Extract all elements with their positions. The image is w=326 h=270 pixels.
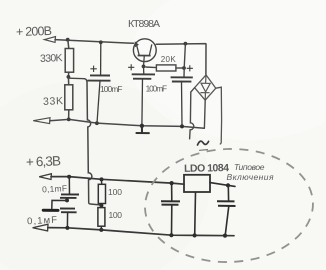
svg-text:33K: 33K xyxy=(43,95,63,108)
node top of 330K xyxy=(66,38,70,42)
transistor Q1 xyxy=(133,39,156,67)
bridge diode symbol xyxy=(200,75,210,100)
terminal arrow +200V xyxy=(45,37,56,43)
node 20K right xyxy=(182,66,186,70)
svg-text:+ 200В: + 200В xyxy=(16,24,52,39)
svg-text:100mF: 100mF xyxy=(100,84,123,94)
capacitor LDO left xyxy=(161,183,180,235)
wire rail to 20K node xyxy=(184,44,185,78)
node top of C1 xyxy=(99,40,103,44)
svg-text:100: 100 xyxy=(108,187,122,197)
node rail3 LDO left cap xyxy=(170,181,174,185)
terminal arrow rail3 xyxy=(39,174,51,180)
ground symbol xyxy=(136,126,149,133)
node top of 20K line xyxy=(184,42,188,46)
wire LDO output right xyxy=(210,183,235,187)
transistor emitter arrowhead xyxy=(135,41,139,47)
wire bridge right AC down xyxy=(216,87,222,144)
svg-text:Типовое: Типовое xyxy=(234,162,265,172)
capacitor LDO right xyxy=(217,185,236,235)
node rail4 R2 xyxy=(99,228,103,232)
capacitor CA 0.1mF xyxy=(60,177,79,201)
wire rail4 bottom xyxy=(48,228,234,236)
svg-text:КТ898А: КТ898А xyxy=(128,18,160,30)
node rail4 LDO pin xyxy=(193,233,197,237)
node C2 bottom xyxy=(140,124,144,128)
capacitor C1 100mF xyxy=(88,42,111,123)
resistor R1 100 xyxy=(98,179,105,205)
svg-text:330K: 330K xyxy=(40,52,63,65)
wire rail3 +6.3V xyxy=(51,177,184,185)
terminal arrow rail4 xyxy=(33,224,48,231)
node R1-R2 junction xyxy=(99,203,103,207)
node rail4 LDO left cap xyxy=(169,233,173,237)
node base xyxy=(142,65,146,69)
wire bridge left AC down with hop xyxy=(190,88,195,139)
capacitor C2 100mF xyxy=(128,64,155,125)
node C1 bottom xyxy=(95,121,99,125)
resistor 20K xyxy=(145,65,184,71)
svg-text:LDO 1084: LDO 1084 xyxy=(184,162,229,175)
terminal arrow rail2 xyxy=(33,118,50,124)
resistor 33K xyxy=(65,77,73,119)
node capA bottom xyxy=(65,198,69,202)
capacitor CC 0.1mF xyxy=(60,209,77,228)
node divider xyxy=(67,75,71,79)
svg-text:20K: 20K xyxy=(161,55,177,64)
svg-text:0,1mF: 0,1mF xyxy=(42,183,67,194)
wire ground rail xyxy=(50,119,204,128)
svg-text:100: 100 xyxy=(109,210,123,220)
wire bridge bottom to rail xyxy=(203,100,206,128)
node rail3 R1 xyxy=(100,177,104,181)
resistor 330K xyxy=(65,40,73,77)
svg-text:100mF: 100mF xyxy=(146,84,168,94)
node 33K bottom xyxy=(67,118,71,122)
resistor R2 100 xyxy=(98,205,105,229)
svg-text:+ 6,3В: + 6,3В xyxy=(26,153,62,169)
node rail4 LDO right cap xyxy=(223,234,227,238)
AC tilde symbol xyxy=(198,141,209,145)
annotation dashed bubble xyxy=(143,146,315,265)
node rail3 capA xyxy=(67,175,71,179)
wire feedback vertical with hops xyxy=(85,79,100,205)
wire divider to feedback xyxy=(69,77,85,80)
LDO middle pin xyxy=(194,192,197,235)
node C3 bottom xyxy=(180,124,184,128)
regulator U1 LDO box xyxy=(184,175,210,192)
chassis stub and bar xyxy=(52,200,67,208)
capacitor C3 100mF xyxy=(171,65,193,126)
node rail4 capC xyxy=(65,226,69,230)
svg-text:Включения: Включения xyxy=(227,172,274,182)
node LDO right cap top xyxy=(226,183,230,187)
wire top rail xyxy=(55,40,206,75)
bridge rectifier diamond xyxy=(195,75,216,100)
